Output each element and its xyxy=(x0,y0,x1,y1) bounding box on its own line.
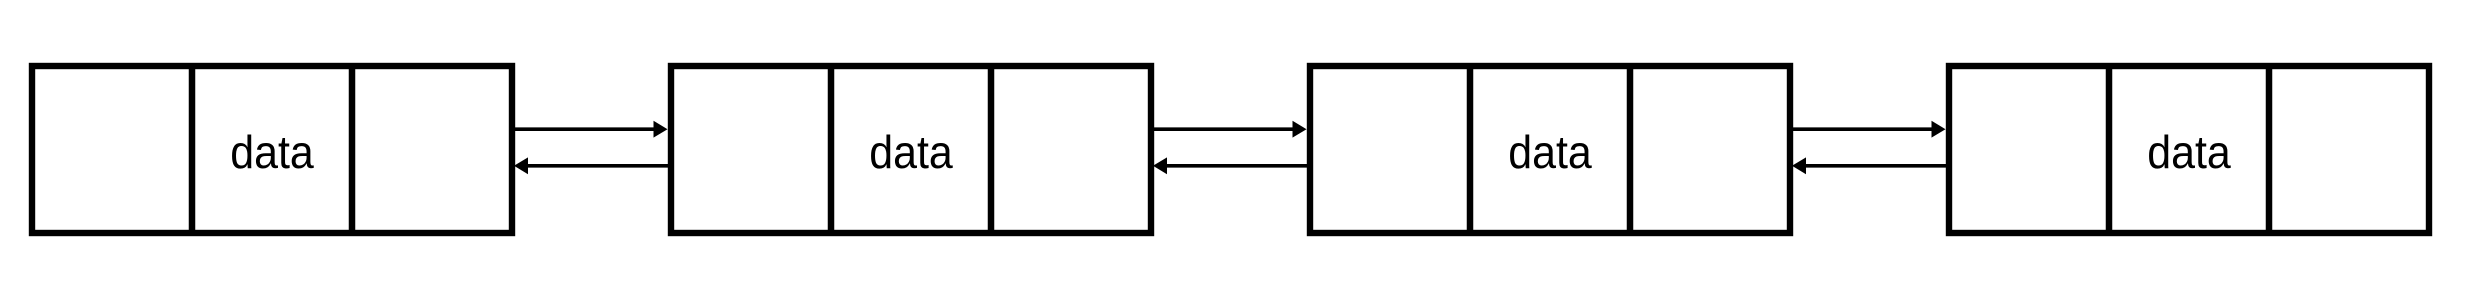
node 1 divider 2 (data|next) xyxy=(349,64,356,235)
node 2 box xyxy=(671,66,1151,233)
wire: next arrow node3 to node4 xyxy=(1792,121,1946,138)
node 2 divider 2 (data|next) xyxy=(988,64,995,235)
node 3 box xyxy=(1310,66,1790,233)
svg-text:data: data xyxy=(869,126,953,178)
svg-text:data: data xyxy=(230,126,314,178)
wire: prev arrow node3 to node2 xyxy=(1153,157,1308,174)
node 1 divider 1 (prev|data) xyxy=(189,64,196,235)
wire: next arrow node2 to node3 xyxy=(1153,121,1307,138)
node 3 divider 1 (prev|data) xyxy=(1467,64,1474,235)
svg-text:data: data xyxy=(2147,126,2231,178)
svg-text:data: data xyxy=(1508,126,1592,178)
node 4 divider 1 (prev|data) xyxy=(2106,64,2113,235)
node 1 box xyxy=(32,66,512,233)
node 4 divider 2 (data|next) xyxy=(2266,64,2273,235)
wire: next arrow node1 to node2 xyxy=(514,121,668,138)
wire: prev arrow node2 to node1 xyxy=(514,157,669,174)
node 3 divider 2 (data|next) xyxy=(1627,64,1634,235)
node 2 divider 1 (prev|data) xyxy=(828,64,835,235)
node 4 box xyxy=(1949,66,2429,233)
wire: prev arrow node4 to node3 xyxy=(1792,157,1947,174)
